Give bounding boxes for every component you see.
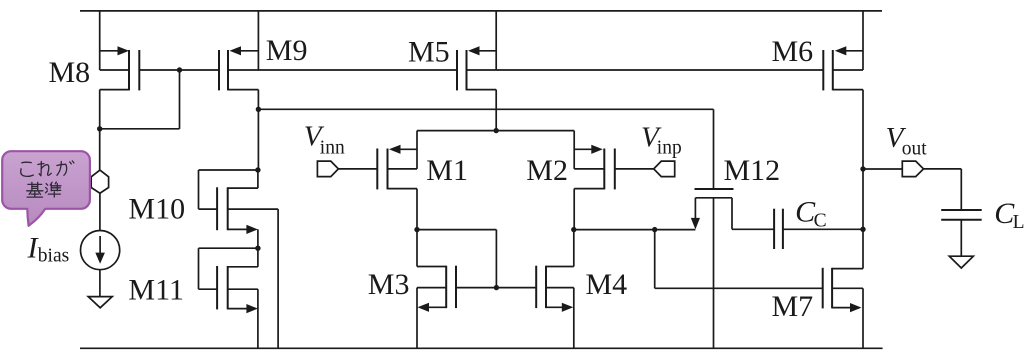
node M8 drain junction — [97, 126, 102, 131]
transistor M7 — [823, 268, 863, 349]
transistor M12 — [691, 189, 734, 348]
capacitor CC — [732, 209, 863, 249]
svg-text:M4: M4 — [586, 268, 628, 301]
wire current source to ground — [99, 270, 101, 297]
wire gate bus M5-M6 with M5 body — [467, 69, 824, 71]
node M2-M4 drain junction — [571, 227, 576, 232]
wire Vout — [863, 168, 902, 170]
transistor M6 — [823, 10, 863, 269]
wire diamond to current source — [99, 193, 101, 230]
svg-text:M12: M12 — [724, 154, 781, 187]
svg-text:inn: inn — [320, 138, 345, 159]
transistor M1 — [377, 131, 417, 230]
port Vinp — [615, 161, 675, 177]
svg-text:M9: M9 — [266, 34, 308, 67]
svg-text:M3: M3 — [368, 268, 410, 301]
wire first stage output bus — [574, 229, 696, 231]
svg-text:M2: M2 — [526, 154, 568, 187]
node M10 drain junction — [255, 167, 260, 172]
svg-text:M8: M8 — [49, 56, 91, 89]
wire cascode bias bus to M12 gate — [258, 109, 713, 189]
svg-text:M5: M5 — [408, 36, 450, 69]
node M7 gate branch junction — [652, 227, 657, 232]
wire Vout to CL — [924, 169, 962, 210]
wire M7 gate connection — [655, 230, 823, 289]
ground (Ibias) — [88, 297, 112, 308]
ground (CL) — [949, 256, 973, 268]
transistor M3 — [417, 230, 456, 349]
wire VDD top rail — [80, 10, 882, 12]
wire gate bus M9-M5 with M9 body — [228, 69, 457, 71]
svg-text:C: C — [814, 211, 827, 232]
node M9 drain junction — [256, 107, 261, 112]
callout bubble これが基準 — [2, 151, 90, 226]
callout text これが (hand-drawn glyphs) — [21, 161, 74, 176]
svg-text:bias: bias — [38, 246, 69, 267]
svg-text:M11: M11 — [128, 274, 184, 307]
node reference diamond — [91, 170, 108, 193]
node M5 drain junction — [494, 128, 499, 133]
transistor M10 — [199, 170, 279, 348]
wire M3-M4 gate bus — [456, 287, 536, 289]
callout text 基準 (hand-drawn glyphs) — [27, 182, 61, 197]
node M1-M3 drain junction — [414, 227, 419, 232]
wire bias node — [99, 129, 101, 171]
capacitor CL — [941, 210, 982, 256]
transistor M2 — [574, 131, 615, 230]
wire differential pair common source — [417, 130, 574, 132]
svg-text:M1: M1 — [426, 154, 468, 187]
node Vout junction — [860, 166, 865, 171]
transistor M5 — [457, 10, 496, 131]
svg-text:out: out — [902, 139, 928, 160]
port Vout — [902, 161, 923, 177]
svg-text:M7: M7 — [772, 290, 814, 323]
svg-text:M6: M6 — [772, 35, 814, 68]
svg-text:inp: inp — [657, 138, 682, 159]
wire VSS bottom rail — [80, 347, 883, 349]
transistor M4 — [536, 230, 574, 349]
svg-text:L: L — [1013, 212, 1024, 233]
transistor M9 — [219, 10, 258, 170]
svg-text:M10: M10 — [128, 193, 185, 226]
transistor M8 — [100, 10, 140, 129]
wire gate bus M8-M9 — [139, 69, 219, 71]
wire mirror gate connection — [417, 230, 496, 288]
current source Ibias — [81, 231, 120, 270]
node CC output junction — [860, 227, 865, 232]
transistor M11 — [199, 248, 258, 348]
node M10 source M11 drain junction — [255, 246, 260, 251]
node M8 gate-bus junction — [177, 67, 182, 72]
node M3-M4 gate junction — [494, 285, 499, 290]
wire M8 diode connection — [100, 70, 180, 129]
port Vinn — [317, 161, 377, 177]
